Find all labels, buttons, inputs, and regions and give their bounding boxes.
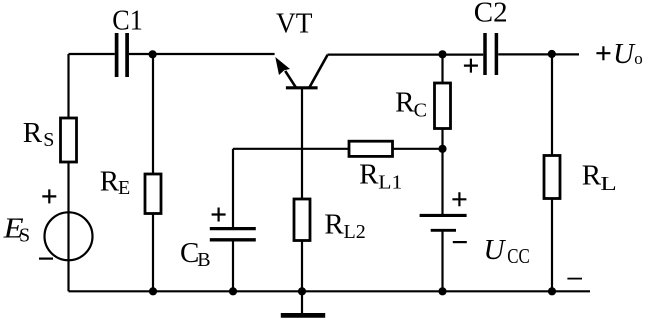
svg-text:L2: L2 bbox=[344, 221, 366, 243]
svg-text:S: S bbox=[19, 225, 30, 247]
svg-text:B: B bbox=[197, 249, 210, 271]
svg-text:L1: L1 bbox=[378, 172, 402, 194]
svg-text:C1: C1 bbox=[112, 4, 143, 36]
svg-text:U: U bbox=[484, 234, 507, 266]
svg-text:C: C bbox=[414, 99, 427, 121]
svg-text:U: U bbox=[613, 38, 636, 70]
svg-text:R: R bbox=[359, 158, 379, 190]
svg-text:R: R bbox=[23, 117, 43, 149]
svg-text:E: E bbox=[118, 177, 130, 199]
svg-text:R: R bbox=[582, 160, 602, 192]
svg-text:S: S bbox=[43, 129, 54, 151]
svg-text:C2: C2 bbox=[474, 0, 508, 29]
svg-text:R: R bbox=[395, 87, 415, 119]
svg-text:L: L bbox=[600, 173, 617, 195]
svg-text:o: o bbox=[634, 49, 643, 68]
svg-text:R: R bbox=[100, 166, 120, 198]
svg-text:R: R bbox=[324, 209, 344, 241]
svg-text:VT: VT bbox=[276, 8, 313, 40]
svg-text:CC: CC bbox=[507, 244, 530, 268]
